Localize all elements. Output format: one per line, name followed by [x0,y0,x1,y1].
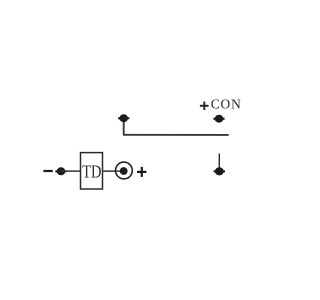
svg-text:TD: TD [82,162,101,182]
node output terminal (right) [214,167,225,175]
wire (stub above right output node) [218,154,220,170]
terminal socket center pin [120,167,128,175]
node input terminal [55,167,66,175]
svg-text:CON: CON [211,97,242,112]
node CON terminal [213,115,224,123]
polarity label + (CON net) [200,102,209,110]
node junction above TD output [118,114,129,122]
polarity label + (output positive) [137,167,146,177]
wire (input node to TD box) [61,170,80,172]
wire (TD box to output socket pin) [103,170,122,172]
wire (top rail from junction down and right) [124,118,229,135]
terminal socket (outer ring) [116,162,133,179]
polarity label − (input negative) [43,170,52,172]
component TD (time-delay module) body [81,153,103,189]
